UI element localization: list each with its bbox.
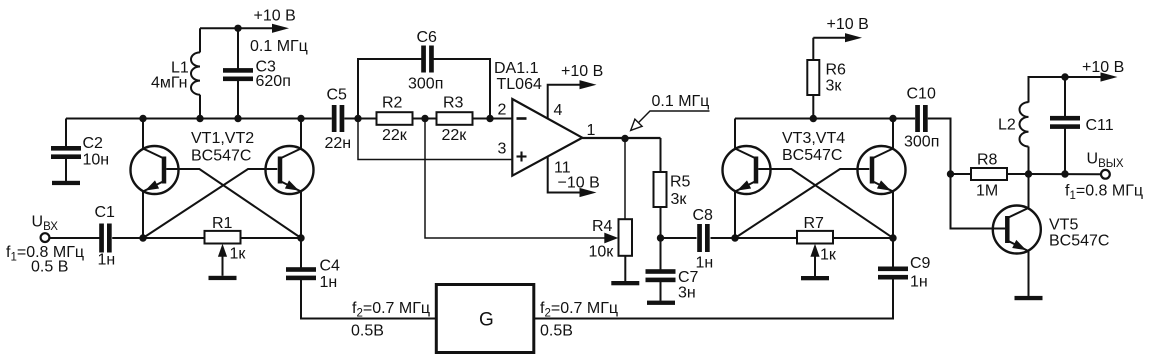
- pin 11 label: [554, 159, 571, 176]
- capacitor C9: [534, 238, 931, 319]
- svg-text:R8: R8: [977, 152, 998, 169]
- label f1=0.8 МГц (output): [1065, 183, 1143, 203]
- svg-text:R1: R1: [212, 215, 233, 232]
- label 0.5В (right of G): [540, 323, 573, 340]
- capacitor C4: [286, 238, 436, 319]
- label f2=0.7 МГц (left of G): [352, 300, 430, 320]
- VT3 emitter wire: [734, 192, 736, 239]
- svg-text:3к: 3к: [826, 78, 843, 95]
- svg-text:R2: R2: [382, 95, 403, 112]
- wire R1 to VT2 node: [241, 237, 302, 239]
- junction C6/- input: [486, 115, 493, 122]
- wire R5 to node: [660, 207, 662, 238]
- wire C10 to R8 node: [928, 119, 951, 175]
- svg-text:C8: C8: [693, 207, 714, 224]
- power arrow -10V (pin 11): [558, 175, 600, 197]
- op-amp output wire: [582, 137, 660, 139]
- VT4 emitter wire: [892, 192, 894, 239]
- svg-text:VT1,VT2: VT1,VT2: [191, 130, 254, 147]
- resistor R2: [377, 95, 413, 145]
- pin 3 label: [498, 140, 507, 157]
- svg-text:3к: 3к: [671, 191, 688, 208]
- svg-text:1н: 1н: [320, 274, 338, 291]
- wire middle node to R4 wiper: [425, 119, 605, 239]
- wire top-left +10V feed: [200, 27, 274, 29]
- svg-text:1н: 1н: [98, 252, 116, 269]
- VT1 collector wire: [142, 119, 144, 149]
- svg-text:R4: R4: [592, 218, 613, 235]
- R4 wiper arrow: [604, 233, 618, 244]
- svg-text:+10 В: +10 В: [561, 63, 603, 80]
- svg-text:f2=0.7 МГц: f2=0.7 МГц: [540, 300, 618, 320]
- VT2 emitter wire: [300, 192, 302, 239]
- svg-text:R5: R5: [670, 174, 691, 191]
- svg-text:R7: R7: [804, 215, 825, 232]
- junction C11 bottom: [1061, 170, 1068, 177]
- svg-text:0.5В: 0.5В: [540, 323, 573, 340]
- label 0.1 МГц (tank): [250, 38, 308, 55]
- transistor VT3: [723, 146, 771, 194]
- capacitor C8: [693, 207, 714, 272]
- transistor VT2: [266, 146, 314, 194]
- resistor R8: [971, 152, 1007, 200]
- pin 1 label: [587, 122, 596, 139]
- svg-text:C1: C1: [95, 204, 116, 221]
- wire U_BX to C1: [50, 237, 100, 239]
- wire node to R7: [735, 237, 798, 239]
- svg-text:300п: 300п: [904, 134, 939, 151]
- junction C3 top: [234, 25, 241, 32]
- VT3 collector wire: [734, 119, 736, 149]
- wire L2/C11 top: [1029, 77, 1102, 103]
- svg-text:BC547C: BC547C: [191, 147, 251, 164]
- svg-text:22к: 22к: [382, 127, 408, 144]
- svg-text:+10 В: +10 В: [254, 8, 296, 25]
- svg-text:0.5В: 0.5В: [351, 323, 384, 340]
- wire collector rail (right): [735, 118, 915, 120]
- svg-text:TL064: TL064: [497, 76, 542, 93]
- capacitor C2: [51, 119, 109, 182]
- wire output to R5: [660, 138, 662, 173]
- op-amp DA1.1: [512, 99, 582, 176]
- svg-text:1М: 1М: [976, 183, 998, 200]
- label VT3,VT4: [782, 130, 845, 147]
- junction R8 left node: [947, 170, 954, 177]
- svg-text:f2=0.7 МГц: f2=0.7 МГц: [352, 300, 430, 320]
- wire C5 to R2: [344, 118, 376, 120]
- wire R3 to - input: [473, 118, 513, 120]
- label BC547C (VT5): [1049, 233, 1109, 250]
- VT4 collector wire: [892, 119, 894, 149]
- svg-text:C11: C11: [1086, 117, 1114, 134]
- junction C3 bottom: [234, 115, 241, 122]
- power arrow +10V (pin 4): [561, 63, 603, 90]
- junction VT1 emitter node: [139, 234, 146, 241]
- wire C8 to VT3 node: [711, 237, 736, 239]
- junction VT2 collector: [297, 115, 304, 122]
- power arrow +10V (output tank): [1082, 59, 1124, 82]
- transistor VT4: [858, 146, 906, 194]
- svg-text:C9: C9: [910, 255, 931, 272]
- svg-text:4: 4: [554, 102, 563, 119]
- svg-text:10к: 10к: [589, 244, 615, 261]
- svg-text:VT5: VT5: [1049, 217, 1078, 234]
- VT5 emitter wire: [1028, 252, 1030, 297]
- svg-text:G: G: [479, 310, 494, 331]
- inductor L1: [151, 28, 200, 118]
- capacitor C1: [95, 204, 116, 269]
- capacitor C5: [325, 87, 352, 153]
- R7 wiper arrow: [810, 244, 819, 276]
- label VT1,VT2: [191, 130, 254, 147]
- svg-text:11: 11: [554, 159, 571, 176]
- svg-text:VT3,VT4: VT3,VT4: [782, 130, 845, 147]
- svg-text:L2: L2: [998, 117, 1016, 134]
- svg-text:1к: 1к: [230, 246, 247, 263]
- label BC547C (VT3,VT4): [782, 147, 842, 164]
- svg-text:BC547C: BC547C: [1049, 233, 1109, 250]
- VT4 base cross-wire: [735, 169, 869, 238]
- label TL064: [497, 76, 542, 93]
- capacitor C7: [646, 238, 699, 302]
- svg-text:0.5 В: 0.5 В: [31, 259, 68, 276]
- ground R7: [801, 276, 829, 280]
- svg-text:C6: C6: [417, 29, 438, 46]
- junction C11 top: [1061, 73, 1068, 80]
- C6 feedback loop top wire: [434, 59, 491, 119]
- svg-text:C5: C5: [327, 87, 348, 104]
- wire node A to + input: [358, 119, 512, 160]
- wire R4 to ground: [624, 256, 626, 281]
- resistor R1 (pot): [205, 215, 247, 263]
- label DA1.1: [494, 60, 539, 77]
- power arrow +10V (L1/C3 tank): [254, 8, 296, 33]
- junction VT2 emitter node: [297, 234, 304, 241]
- VT3 base cross-wire: [758, 169, 893, 238]
- svg-text:C4: C4: [320, 258, 341, 275]
- junction VT4 collector: [889, 115, 896, 122]
- junction VT1 collector: [139, 115, 146, 122]
- pin 4 label: [554, 102, 563, 119]
- label VT5: [1049, 217, 1078, 234]
- ground C7: [647, 301, 675, 305]
- svg-text:1к: 1к: [820, 247, 837, 264]
- ground VT5: [1015, 296, 1043, 300]
- wire R7 to VT4 node: [833, 237, 894, 239]
- junction L1 bottom: [196, 115, 203, 122]
- resistor R4 (pot): [589, 218, 633, 261]
- inductor L2: [998, 102, 1029, 174]
- svg-text:f1=0.8 МГц: f1=0.8 МГц: [1065, 183, 1143, 203]
- wire collector rail (left): [66, 118, 332, 120]
- resistor R3: [437, 95, 473, 145]
- wire node to C8: [661, 237, 697, 239]
- wire R2 to R3: [413, 118, 437, 120]
- svg-text:22н: 22н: [325, 135, 352, 152]
- junction R2/R3 middle node: [421, 115, 428, 122]
- wire output to R4: [624, 139, 626, 220]
- VT1 base cross-wire to right node: [166, 169, 301, 238]
- label f1=0.8 МГц (input): [6, 244, 84, 264]
- junction node A (after C5): [354, 115, 361, 122]
- svg-text:BC547C: BC547C: [782, 147, 842, 164]
- capacitor C11: [1050, 77, 1114, 174]
- wire tank bottom: [1029, 173, 1101, 175]
- wire VT5 base: [951, 174, 1006, 229]
- op-amp pin 4 wire: [548, 85, 581, 119]
- svg-text:R6: R6: [826, 62, 847, 79]
- resistor R6: [807, 38, 846, 119]
- svg-text:C10: C10: [907, 85, 936, 102]
- R1 wiper arrow: [218, 244, 227, 276]
- input terminal U_BX: [32, 214, 59, 243]
- svg-text:DA1.1: DA1.1: [494, 60, 539, 77]
- label 0.5В (left of G): [351, 323, 384, 340]
- label 0.5 В (input): [31, 259, 68, 276]
- svg-text:4мГн: 4мГн: [151, 75, 188, 92]
- svg-text:+10 В: +10 В: [1082, 59, 1124, 76]
- svg-text:1н: 1н: [696, 255, 714, 272]
- capacitor C6: [408, 29, 443, 93]
- VT2 collector wire: [300, 119, 302, 149]
- junction L2 bottom: [1025, 170, 1032, 177]
- label BC547C (VT1,VT2): [191, 147, 251, 164]
- junction output node: [621, 135, 628, 142]
- svg-text:620п: 620п: [256, 73, 291, 90]
- transistor VT1: [131, 146, 179, 194]
- svg-text:0.1 МГц: 0.1 МГц: [652, 93, 710, 110]
- svg-text:22к: 22к: [442, 127, 468, 144]
- svg-text:+10 В: +10 В: [827, 16, 869, 33]
- svg-text:R3: R3: [443, 95, 464, 112]
- svg-text:1н: 1н: [910, 274, 928, 291]
- svg-text:3н: 3н: [678, 285, 696, 302]
- generator G box: [436, 285, 534, 353]
- svg-text:300п: 300п: [408, 76, 443, 93]
- wire R8 to L2 node: [1007, 173, 1029, 175]
- power arrow +10V (R6): [813, 16, 868, 42]
- svg-text:3: 3: [498, 140, 507, 157]
- output terminal U_ВЫХ: [1087, 151, 1124, 179]
- svg-text:C7: C7: [678, 269, 699, 286]
- svg-text:10н: 10н: [83, 152, 110, 169]
- label 0.1 МГц (output) with callout: [631, 93, 710, 131]
- ground R1: [209, 276, 237, 280]
- capacitor C10: [904, 85, 939, 150]
- VT5 collector wire: [1028, 174, 1030, 208]
- pin 2 label: [498, 101, 507, 118]
- resistor R7 (pot): [797, 215, 837, 264]
- wire node to R8: [951, 173, 972, 175]
- ground C2: [52, 181, 80, 185]
- junction VT3 emitter node: [731, 234, 738, 241]
- capacitor C3: [223, 28, 291, 118]
- op-amp pin 11 wire: [548, 156, 581, 192]
- svg-text:0.1 МГц: 0.1 МГц: [250, 38, 308, 55]
- svg-text:−10 В: −10 В: [558, 175, 600, 192]
- junction VT4 emitter node: [889, 234, 896, 241]
- wire C1 to R1: [112, 237, 204, 239]
- VT1 emitter wire: [142, 192, 144, 239]
- VT2 base cross-wire to left node: [143, 169, 277, 238]
- transistor VT5: [993, 206, 1041, 254]
- C6 feedback loop left wire: [358, 59, 422, 119]
- svg-text:2: 2: [498, 101, 507, 118]
- label f2=0.7 МГц (right of G): [540, 300, 618, 320]
- svg-text:1: 1: [587, 122, 596, 139]
- ground R4: [611, 281, 639, 285]
- junction R5/C7/C8 node: [657, 234, 664, 241]
- resistor R5: [654, 172, 691, 208]
- junction R6 bottom: [810, 115, 817, 122]
- svg-text:C2: C2: [83, 135, 104, 152]
